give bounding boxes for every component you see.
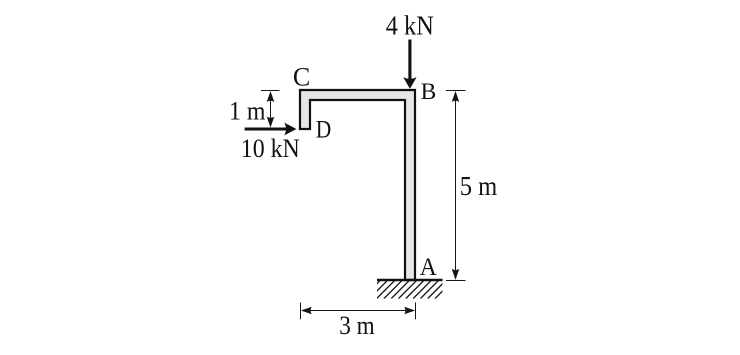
force arrow 4 kN (down onto B) xyxy=(403,40,416,89)
label 5 m xyxy=(460,170,498,201)
label 3 m xyxy=(339,310,375,340)
svg-text:5 m: 5 m xyxy=(460,170,498,201)
node label A xyxy=(420,252,438,281)
dimension 5 m (B to A, right side) xyxy=(446,91,466,281)
svg-text:A: A xyxy=(420,252,438,281)
label 10 kN xyxy=(241,134,300,163)
svg-text:B: B xyxy=(421,79,437,105)
svg-text:10 kN: 10 kN xyxy=(241,134,300,163)
ground hatching xyxy=(362,281,453,299)
svg-text:C: C xyxy=(293,63,310,92)
force arrow 10 kN (right onto D) xyxy=(245,123,297,136)
node label C xyxy=(293,63,310,92)
ground line at support A xyxy=(377,279,443,282)
dimension 3 m (bottom) xyxy=(301,303,416,320)
dimension 1 m (C to D, left side) xyxy=(261,91,280,128)
svg-text:4 kN: 4 kN xyxy=(386,11,434,41)
svg-text:3 m: 3 m xyxy=(339,310,375,340)
svg-text:1 m: 1 m xyxy=(229,97,266,126)
svg-text:D: D xyxy=(316,117,332,144)
node label D xyxy=(316,117,332,144)
frame member C-B-A with stub C-D (gray bent bar) xyxy=(300,90,415,280)
label 4 kN xyxy=(386,11,434,41)
label 1 m xyxy=(229,97,266,126)
node label B xyxy=(421,79,437,105)
